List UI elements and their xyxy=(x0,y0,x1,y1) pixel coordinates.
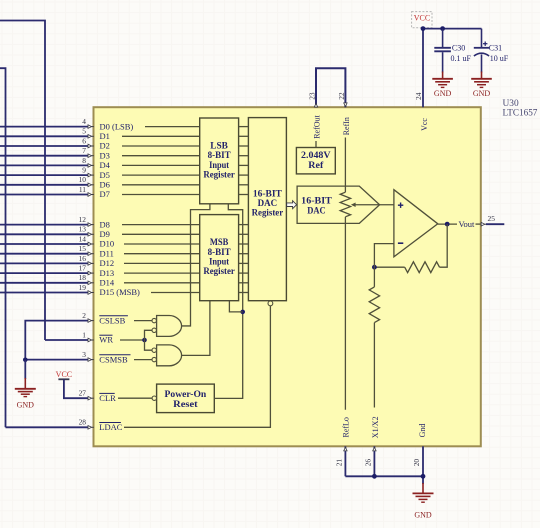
svg-text:VCC: VCC xyxy=(414,13,430,22)
bus line D8 to DAC register xyxy=(239,224,249,226)
wire LDAC to pin xyxy=(6,426,89,428)
pin 13 arrow xyxy=(91,233,93,235)
svg-text:CSLSB: CSLSB xyxy=(99,315,125,325)
pin 3 arrow xyxy=(91,359,93,361)
wire to inverting input xyxy=(374,244,394,268)
svg-text:RefIn: RefIn xyxy=(342,117,351,135)
wire pin 26 outside xyxy=(373,446,375,476)
svg-text:11: 11 xyxy=(79,185,86,194)
svg-text:VCC: VCC xyxy=(56,370,72,379)
pin 28 arrow xyxy=(91,426,93,428)
pin 9 arrow xyxy=(91,174,93,176)
svg-text:2: 2 xyxy=(82,311,86,320)
svg-text:D5: D5 xyxy=(100,170,110,180)
wire data D1 xyxy=(0,135,88,137)
svg-text:D0 (LSB): D0 (LSB) xyxy=(100,121,134,131)
pin 7 arrow xyxy=(91,155,93,157)
and-gate G1 xyxy=(157,316,182,337)
svg-text:C31: C31 xyxy=(489,44,502,53)
junction pin 26 ground xyxy=(372,474,377,479)
pin 18 inner lead xyxy=(124,282,200,284)
svg-text:D1: D1 xyxy=(100,131,110,141)
wire data D6 xyxy=(0,184,88,186)
svg-text:Vout: Vout xyxy=(459,219,476,229)
capacitor C30 xyxy=(434,47,451,49)
bus line D14 to DAC register xyxy=(239,282,249,284)
DAC register clock bubble xyxy=(268,301,273,306)
svg-text:25: 25 xyxy=(488,214,496,223)
block arrow DAC data xyxy=(287,201,297,209)
ladder wiper arrow xyxy=(351,203,356,208)
svg-text:D9: D9 xyxy=(100,229,110,239)
wire pin 25 stub xyxy=(486,223,504,225)
wire CSLSB inner xyxy=(134,320,152,322)
wire WR inner xyxy=(120,339,145,341)
bus line D6 to DAC register xyxy=(239,184,249,186)
svg-text:CSMSB: CSMSB xyxy=(99,354,128,364)
pin 19 inner lead xyxy=(151,292,200,294)
ground GND C30 xyxy=(432,78,453,80)
ground GND C31 stem xyxy=(481,72,483,79)
wire data D7 xyxy=(0,194,88,196)
junction C30 xyxy=(440,26,445,31)
ground GND left stem xyxy=(24,378,26,389)
wire data D8 xyxy=(0,224,88,226)
svg-text:9: 9 xyxy=(82,166,86,175)
junction Vout xyxy=(445,222,450,227)
wire data D2 xyxy=(0,145,88,147)
wire data D9 xyxy=(0,233,88,235)
wire LDAC route from left edge xyxy=(0,68,6,427)
resistor feedback xyxy=(405,262,440,273)
svg-text:14: 14 xyxy=(79,234,87,243)
bus line D12 to DAC register xyxy=(239,262,249,264)
wire data D3 xyxy=(0,155,88,157)
svg-text:D14: D14 xyxy=(100,278,115,288)
svg-text:MSB: MSB xyxy=(210,237,229,247)
svg-text:CLR: CLR xyxy=(99,393,116,403)
svg-text:23: 23 xyxy=(308,92,317,100)
pin 10 arrow xyxy=(91,184,93,186)
svg-text:Register: Register xyxy=(203,266,235,276)
pin 6 arrow xyxy=(91,145,93,147)
svg-text:8-BIT: 8-BIT xyxy=(208,150,231,160)
wire RefOut to ref box xyxy=(315,141,317,148)
wire feedback down xyxy=(440,224,448,267)
wire CLR inner xyxy=(118,397,152,399)
pin 12 arrow xyxy=(91,224,93,226)
svg-text:6: 6 xyxy=(82,136,86,145)
svg-text:Register: Register xyxy=(252,208,284,218)
svg-text:16-BIT: 16-BIT xyxy=(253,188,282,198)
pin 21 arrow xyxy=(344,447,347,451)
svg-text:1: 1 xyxy=(82,330,86,339)
svg-text:GND: GND xyxy=(434,89,452,98)
pin 8 arrow xyxy=(91,164,93,166)
wire to ground xyxy=(24,360,26,379)
pin 8 inner lead xyxy=(122,164,200,166)
pin 6 inner lead xyxy=(122,145,200,147)
bus line D10 to DAC register xyxy=(239,243,249,245)
pin 14 inner lead xyxy=(124,243,200,245)
svg-text:0.1 uF: 0.1 uF xyxy=(451,54,472,63)
junction CS ground xyxy=(23,358,28,363)
capacitor C31 xyxy=(474,47,489,49)
pin 19 arrow xyxy=(91,292,93,294)
pin 18 arrow xyxy=(91,282,93,284)
wire junction to gain resistor xyxy=(373,267,375,287)
pin 16 inner lead xyxy=(124,262,200,264)
wire WR to pin xyxy=(45,339,88,341)
LSB input register box xyxy=(200,118,239,204)
junction inverting node xyxy=(372,265,377,270)
wire WR branch up xyxy=(145,330,153,350)
resistor ladder xyxy=(340,192,350,217)
svg-text:GND: GND xyxy=(473,89,491,98)
svg-text:Register: Register xyxy=(203,169,235,179)
svg-text:D2: D2 xyxy=(100,141,110,151)
svg-text:Reset: Reset xyxy=(173,399,199,409)
POR input bubble xyxy=(152,396,156,400)
svg-text:10 uF: 10 uF xyxy=(490,54,509,63)
pin 9 inner lead xyxy=(122,174,200,176)
svg-text:8-BIT: 8-BIT xyxy=(208,247,231,257)
power VCC top xyxy=(412,12,432,28)
svg-text:20: 20 xyxy=(412,459,421,467)
bus line D3 to DAC register xyxy=(239,155,249,157)
ground GND bottom xyxy=(413,492,434,494)
wire pin 21 outside xyxy=(344,446,346,476)
wire op-amp output xyxy=(438,223,457,225)
pin 1 arrow xyxy=(91,339,93,341)
svg-text:Ref: Ref xyxy=(308,160,324,170)
wire WR route from left edge xyxy=(0,21,45,341)
svg-text:18: 18 xyxy=(79,273,87,282)
16-bit DAC register box xyxy=(248,118,286,301)
junction pin 20 ground xyxy=(421,474,426,479)
wire G2 out to MSB clock xyxy=(182,301,210,356)
svg-text:24: 24 xyxy=(414,92,423,100)
op-amp DAC U30 body xyxy=(94,107,481,446)
bus line D5 to DAC register xyxy=(239,174,249,176)
ground GND bottom stem xyxy=(422,483,424,493)
svg-text:28: 28 xyxy=(79,418,87,427)
wire VCC to CLR xyxy=(64,379,88,398)
power-on reset box xyxy=(157,384,215,413)
svg-text:22: 22 xyxy=(337,92,346,100)
wire data D13 xyxy=(0,272,88,274)
svg-text:D15 (MSB): D15 (MSB) xyxy=(100,287,141,297)
bus line D11 to DAC register xyxy=(239,253,249,255)
bus line D2 to DAC register xyxy=(239,145,249,147)
svg-text:5: 5 xyxy=(82,127,86,136)
svg-text:X1/X2: X1/X2 xyxy=(371,416,380,438)
svg-text:17: 17 xyxy=(79,264,87,273)
svg-text:19: 19 xyxy=(79,283,87,292)
svg-text:26: 26 xyxy=(364,459,373,467)
svg-text:D13: D13 xyxy=(100,268,115,278)
svg-text:2.048V: 2.048V xyxy=(301,150,331,160)
svg-text:7: 7 xyxy=(82,146,86,155)
ground GND left xyxy=(15,388,36,390)
svg-text:D10: D10 xyxy=(100,239,115,249)
svg-text:LTC1657: LTC1657 xyxy=(503,108,538,118)
resistor gain X1/X2 xyxy=(369,287,379,323)
pin 12 inner lead xyxy=(122,224,200,226)
pin 26 arrow xyxy=(373,447,376,451)
svg-text:D6: D6 xyxy=(100,180,110,190)
wire data D11 xyxy=(0,253,88,255)
svg-text:RefOut: RefOut xyxy=(313,114,322,138)
pin 7 inner lead xyxy=(122,155,200,157)
bus line D7 to DAC register xyxy=(239,194,249,196)
bus line D1 to DAC register xyxy=(239,135,249,137)
pin 17 inner lead xyxy=(124,272,200,274)
svg-text:D4: D4 xyxy=(100,160,111,170)
pin 4 arrow xyxy=(91,126,93,128)
svg-text:GND: GND xyxy=(17,401,35,410)
bus line D9 to DAC register xyxy=(239,233,249,235)
pin 27 arrow xyxy=(91,397,93,399)
svg-text:3: 3 xyxy=(82,350,86,359)
MSB input register box xyxy=(200,215,239,301)
svg-text:Gnd: Gnd xyxy=(418,424,427,438)
wire G1 out to LSB clock xyxy=(182,204,210,326)
svg-text:13: 13 xyxy=(79,225,87,234)
wire refs to ground xyxy=(345,475,423,477)
wire CSLSB xyxy=(25,321,88,360)
svg-text:Vcc: Vcc xyxy=(420,118,429,131)
ground GND C30 stem xyxy=(442,72,444,79)
pin 22 arrow in xyxy=(344,103,347,107)
wire RefIn down to ladder xyxy=(344,138,346,193)
junction WR split xyxy=(142,338,147,343)
svg-text:D11: D11 xyxy=(100,248,114,258)
op-amp minus xyxy=(398,242,403,244)
junction clear net xyxy=(240,310,245,315)
svg-text:Input: Input xyxy=(209,256,230,266)
wire data D0 xyxy=(0,126,88,128)
wire CSMSB xyxy=(25,359,88,361)
wire C30 to ground xyxy=(442,52,444,72)
svg-text:16: 16 xyxy=(79,254,87,263)
svg-text:4: 4 xyxy=(82,117,86,126)
wire CSMSB inner xyxy=(134,359,152,361)
svg-text:Power-On: Power-On xyxy=(165,389,207,399)
power VCC left bar xyxy=(58,378,69,380)
svg-text:12: 12 xyxy=(79,215,87,224)
wire RefOut jumper to RefIn xyxy=(316,68,345,107)
capacitor C31 plus xyxy=(483,43,487,45)
svg-text:21: 21 xyxy=(335,459,344,467)
wire LDAC inner xyxy=(124,306,270,427)
pin 23 arrow out xyxy=(314,103,317,107)
wire data D12 xyxy=(0,262,88,264)
pin 14 arrow xyxy=(91,243,93,245)
svg-text:27: 27 xyxy=(79,389,87,398)
wire VCC to pin 24 xyxy=(422,28,424,107)
16-bit DAC pentagon xyxy=(297,186,380,223)
wire data D14 xyxy=(0,282,88,284)
svg-text:DAC: DAC xyxy=(307,205,325,216)
svg-text:RefLo: RefLo xyxy=(342,417,351,437)
pin 11 inner lead xyxy=(122,194,200,196)
wire feedback to junction xyxy=(374,266,404,268)
bus line D13 to DAC register xyxy=(239,272,249,274)
wire to C30 xyxy=(442,29,444,47)
pin 5 arrow xyxy=(91,135,93,137)
pin 4 inner lead xyxy=(145,126,200,128)
voltage reference box xyxy=(296,148,335,174)
pin 25 arrow xyxy=(485,223,487,225)
pin 10 inner lead xyxy=(122,184,200,186)
pin 15 arrow xyxy=(91,253,93,255)
pin 16 arrow xyxy=(91,262,93,264)
wire RefLo internal xyxy=(344,217,346,410)
svg-text:10: 10 xyxy=(79,175,87,184)
svg-text:D3: D3 xyxy=(100,150,110,160)
pin 17 arrow xyxy=(91,272,93,274)
op-amp triangle xyxy=(394,190,438,257)
svg-text:DAC: DAC xyxy=(258,198,278,208)
svg-text:D8: D8 xyxy=(100,219,110,229)
wire POR out to clear xyxy=(214,204,242,399)
wire clear to MSB xyxy=(229,301,242,312)
wire to C31 xyxy=(481,29,483,48)
svg-text:D12: D12 xyxy=(100,258,115,268)
pin 15 inner lead xyxy=(124,253,200,255)
ground GND C31 xyxy=(471,78,492,80)
wire VCC rail xyxy=(423,28,482,30)
wire data D15 xyxy=(0,292,88,294)
bus line D4 to DAC register xyxy=(239,164,249,166)
wire data D5 xyxy=(0,174,88,176)
svg-text:D7: D7 xyxy=(100,189,110,199)
svg-text:C30: C30 xyxy=(452,43,465,52)
svg-text:GND: GND xyxy=(414,511,432,520)
pin 2 arrow xyxy=(91,320,93,322)
pin 11 arrow xyxy=(91,194,93,196)
svg-text:LDAC: LDAC xyxy=(99,422,122,432)
svg-text:LSB: LSB xyxy=(210,141,228,151)
wire gain resistor to pin 26 xyxy=(373,323,375,408)
svg-text:15: 15 xyxy=(79,244,87,253)
pin 13 inner lead xyxy=(122,233,200,235)
and-gate G2 xyxy=(157,345,182,366)
wire data D4 xyxy=(0,164,88,166)
bus line D0 to DAC register xyxy=(239,126,249,128)
junction VCC pin24 xyxy=(421,26,426,31)
wire pin 20 outside xyxy=(422,446,424,484)
svg-text:Input: Input xyxy=(209,160,230,170)
wire C31 to ground xyxy=(481,54,483,72)
bus line D15 to DAC register xyxy=(239,292,249,294)
op-amp plus xyxy=(398,204,403,206)
wire data D10 xyxy=(0,243,88,245)
svg-text:WR: WR xyxy=(99,335,113,345)
pin 5 inner lead xyxy=(122,135,200,137)
svg-text:8: 8 xyxy=(82,156,86,165)
